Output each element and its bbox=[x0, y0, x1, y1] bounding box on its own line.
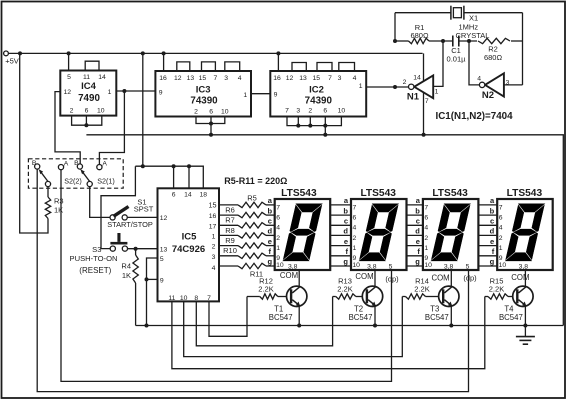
svg-text:7: 7 bbox=[285, 108, 289, 115]
svg-text:3: 3 bbox=[506, 80, 510, 87]
wire S2(2) A to DIS2 dp bbox=[61, 170, 392, 382]
svg-text:15: 15 bbox=[209, 201, 217, 210]
wire R2 right bbox=[511, 40, 523, 42]
svg-text:COM: COM bbox=[355, 272, 373, 281]
svg-text:14: 14 bbox=[98, 74, 106, 81]
svg-text:10: 10 bbox=[180, 295, 188, 302]
svg-text:d: d bbox=[490, 227, 495, 236]
svg-text:7490: 7490 bbox=[78, 93, 100, 104]
wire IC5 pin10 to R14 bbox=[184, 297, 403, 357]
resistor R9 220 bbox=[219, 236, 275, 248]
wire T3 emitter to rail bbox=[450, 306, 452, 325]
svg-text:1K: 1K bbox=[54, 206, 63, 215]
svg-text:(RESET): (RESET) bbox=[79, 266, 111, 275]
node R4 top junction bbox=[134, 247, 138, 251]
svg-text:b: b bbox=[343, 206, 348, 215]
node T1 emitter bbox=[297, 324, 301, 328]
svg-text:2: 2 bbox=[276, 235, 280, 242]
svg-text:14: 14 bbox=[413, 74, 421, 81]
resistor R7 220 bbox=[219, 216, 275, 228]
svg-text:7: 7 bbox=[214, 75, 218, 82]
op-amp N2 inverter bbox=[477, 73, 509, 101]
resistor R4 1K bbox=[121, 249, 138, 283]
node IC4 pin1 junction bbox=[122, 89, 126, 93]
svg-text:10: 10 bbox=[276, 262, 284, 269]
wire IC4 pins 11-14 bracket bbox=[85, 61, 99, 70]
wire S1 to IC5 pin12 bbox=[127, 216, 157, 218]
svg-text:COM: COM bbox=[431, 274, 449, 283]
node IC2 bracket pin2 bbox=[308, 124, 312, 128]
svg-text:4: 4 bbox=[424, 225, 428, 232]
wire IC2 pin1 to N1 output bbox=[366, 86, 408, 88]
svg-text:15: 15 bbox=[313, 75, 321, 82]
svg-text:1: 1 bbox=[276, 245, 280, 252]
+5V supply terminal bbox=[4, 51, 19, 66]
svg-text:9: 9 bbox=[160, 277, 164, 284]
node IC3 reset junction bbox=[209, 122, 213, 126]
transistor T4 BC547 bbox=[499, 286, 533, 322]
node T3 emitter bbox=[449, 324, 453, 328]
switch S2(1) contact B bbox=[74, 160, 82, 169]
wire T2 emitter to rail bbox=[374, 306, 376, 325]
wire IC5 supply bus bbox=[135, 166, 203, 188]
wire T1 emitter to rail bbox=[298, 306, 300, 325]
svg-text:CRYSTAL: CRYSTAL bbox=[456, 31, 490, 40]
svg-text:(dp): (dp) bbox=[385, 274, 399, 283]
wire IC3 pin1 to IC2 pin9 bbox=[251, 93, 270, 95]
svg-text:5: 5 bbox=[160, 256, 164, 263]
wire IC2 reset to ground rail bbox=[324, 126, 326, 135]
svg-text:5: 5 bbox=[466, 264, 470, 271]
wire IC5 pin6 bbox=[173, 166, 175, 188]
switch S1 SPST bbox=[107, 198, 154, 230]
svg-text:2.2K: 2.2K bbox=[414, 285, 429, 294]
svg-text:BC547: BC547 bbox=[425, 313, 449, 322]
svg-text:R7: R7 bbox=[225, 216, 235, 225]
svg-text:PUSH-TO-ON: PUSH-TO-ON bbox=[70, 254, 118, 263]
svg-text:680Ω: 680Ω bbox=[410, 31, 429, 40]
wire T4 emitter to rail bbox=[524, 306, 526, 325]
svg-text:e: e bbox=[416, 237, 420, 246]
svg-text:4: 4 bbox=[238, 75, 242, 82]
svg-text:1MHz: 1MHz bbox=[459, 22, 479, 31]
svg-text:A: A bbox=[64, 161, 69, 168]
svg-text:10: 10 bbox=[499, 262, 507, 269]
svg-text:2: 2 bbox=[70, 108, 74, 115]
wire R12 feed bbox=[247, 296, 260, 298]
node segment c label D1 bbox=[268, 217, 272, 226]
svg-text:2: 2 bbox=[403, 79, 407, 86]
display DIS2 digit bbox=[359, 204, 398, 261]
svg-text:START/STOP: START/STOP bbox=[107, 220, 153, 229]
node bus +5V feed bbox=[141, 164, 145, 168]
resistor R11 220 bbox=[219, 263, 275, 278]
label COM DIS2 bbox=[355, 272, 373, 281]
node +5V/IC5 supply bbox=[141, 51, 145, 55]
node pin5-9 junction bbox=[145, 277, 149, 281]
resistor R3 1K bbox=[45, 187, 63, 219]
node R1 left bbox=[393, 39, 397, 43]
node IC2 bracket pin6 bbox=[323, 124, 327, 128]
wire IC2 bottom bracket bbox=[287, 117, 341, 126]
svg-text:1K: 1K bbox=[122, 271, 131, 280]
op-amp N1 inverter bbox=[403, 74, 439, 105]
svg-text:S2(1): S2(1) bbox=[97, 177, 115, 186]
display DIS3 LTS543 bbox=[423, 188, 479, 271]
svg-text:LTS543: LTS543 bbox=[507, 188, 543, 199]
wire IC3 pin16 to +5V bbox=[163, 53, 165, 71]
wire S2(1) pole to S1 bbox=[90, 187, 110, 218]
svg-text:10: 10 bbox=[221, 108, 229, 115]
svg-text:1: 1 bbox=[424, 245, 428, 252]
svg-text:e: e bbox=[344, 237, 348, 246]
node segment f label D1 bbox=[269, 247, 272, 256]
svg-text:2: 2 bbox=[308, 108, 312, 115]
svg-text:4: 4 bbox=[276, 225, 280, 232]
label IC1 note bbox=[436, 111, 514, 122]
svg-text:2: 2 bbox=[212, 244, 216, 251]
wire N2 output to C1/R2 bbox=[469, 41, 479, 85]
svg-text:6: 6 bbox=[209, 108, 213, 115]
svg-text:74390: 74390 bbox=[190, 95, 218, 106]
svg-text:g: g bbox=[343, 257, 348, 266]
resistor R13 2.2K bbox=[333, 277, 363, 300]
svg-text:13: 13 bbox=[187, 75, 195, 82]
svg-text:S2(2): S2(2) bbox=[64, 177, 82, 186]
svg-text:R10: R10 bbox=[223, 246, 237, 255]
node T4 emitter bbox=[523, 324, 527, 328]
IC IC5 74C926 bbox=[158, 188, 220, 302]
svg-text:680Ω: 680Ω bbox=[484, 53, 503, 62]
svg-text:g: g bbox=[268, 257, 273, 266]
wire R3 to +5V bbox=[20, 53, 48, 233]
svg-text:6: 6 bbox=[85, 108, 89, 115]
svg-text:12: 12 bbox=[174, 75, 182, 82]
wire IC4 pins 2-6-10 bracket bbox=[72, 116, 102, 126]
node R1-C1 junction bbox=[441, 39, 445, 43]
svg-text:2: 2 bbox=[194, 108, 198, 115]
node segment g label D1 bbox=[268, 257, 273, 266]
IC IC3 74390 bbox=[155, 71, 251, 117]
svg-text:X1: X1 bbox=[469, 13, 478, 22]
wire IC2 pins 12-13 bracket bbox=[292, 63, 306, 72]
svg-text:11: 11 bbox=[83, 74, 90, 81]
svg-text:2: 2 bbox=[499, 235, 503, 242]
label COM DIS1 bbox=[280, 271, 298, 280]
IC IC2 74390 bbox=[270, 71, 366, 117]
svg-text:BC547: BC547 bbox=[349, 313, 373, 322]
wire IC4 pin5 to +5V bbox=[68, 53, 70, 70]
svg-text:1: 1 bbox=[243, 92, 247, 99]
svg-text:e: e bbox=[490, 237, 494, 246]
wire IC4 pin12 to S2(1) B bbox=[55, 92, 80, 164]
svg-text:2.2K: 2.2K bbox=[489, 285, 504, 294]
wire IC5 pin14 bbox=[188, 166, 190, 188]
wire IC5 pin11 to R15 bbox=[172, 297, 485, 369]
svg-text:e: e bbox=[268, 237, 272, 246]
svg-text:6: 6 bbox=[424, 215, 428, 222]
wire IC3 pins 15-7 bracket bbox=[202, 62, 216, 71]
svg-text:COM: COM bbox=[511, 273, 529, 282]
wire S3 to +5V bus bbox=[101, 166, 135, 248]
svg-text:6: 6 bbox=[276, 215, 280, 222]
svg-text:1: 1 bbox=[108, 89, 112, 96]
svg-text:1: 1 bbox=[212, 233, 216, 240]
svg-text:12: 12 bbox=[286, 75, 294, 82]
svg-text:12: 12 bbox=[160, 215, 168, 222]
label R5-R11 value bbox=[224, 176, 287, 186]
svg-text:6: 6 bbox=[353, 215, 357, 222]
wire IC5 pin5-9 bbox=[147, 258, 158, 326]
transistor T3 BC547 bbox=[425, 286, 459, 322]
wire IC2 pins 15-7 bracket bbox=[317, 63, 332, 72]
wire IC5 pin7 to R12 bbox=[209, 297, 247, 337]
svg-text:12: 12 bbox=[64, 89, 72, 96]
wire IC3 pins 2-6-10 bracket bbox=[196, 117, 225, 124]
label dp DIS2 bbox=[385, 274, 399, 283]
svg-text:6: 6 bbox=[172, 192, 176, 199]
wire IC4 pin1 to S2(1) A bbox=[99, 91, 124, 164]
svg-text:LTS543: LTS543 bbox=[432, 188, 468, 199]
node segment d label D1 bbox=[268, 227, 273, 236]
node pin5-9 ground bbox=[145, 324, 149, 328]
svg-text:d: d bbox=[415, 227, 420, 236]
wire R4 to emitter rail bbox=[135, 283, 137, 326]
wire crystal left leg bbox=[394, 13, 396, 41]
svg-text:8: 8 bbox=[194, 295, 198, 302]
svg-text:6: 6 bbox=[499, 215, 503, 222]
switch S3 push-to-on bbox=[70, 233, 128, 275]
wire IC5 pin8 to R13 bbox=[196, 297, 332, 346]
svg-text:d: d bbox=[268, 227, 273, 236]
node segment letters DIS2 bbox=[343, 196, 348, 266]
wire IC2 pin16 to +5V bbox=[277, 53, 279, 71]
svg-text:2.2K: 2.2K bbox=[258, 285, 273, 294]
svg-text:R6: R6 bbox=[225, 206, 235, 215]
svg-text:2: 2 bbox=[424, 235, 428, 242]
display DIS1 LTS543 bbox=[275, 188, 331, 271]
resistor R6 220 bbox=[219, 206, 275, 218]
svg-text:17: 17 bbox=[209, 223, 217, 230]
wire emitter rail bbox=[136, 325, 564, 327]
svg-text:74C926: 74C926 bbox=[172, 244, 205, 255]
svg-text:c: c bbox=[344, 217, 348, 226]
wire T1 collector to display bbox=[298, 270, 300, 286]
svg-text:3: 3 bbox=[212, 254, 216, 261]
svg-text:16: 16 bbox=[159, 75, 167, 82]
label COM DIS4 bbox=[511, 273, 529, 282]
node segment letters DIS3 bbox=[415, 196, 420, 266]
svg-text:b: b bbox=[490, 206, 495, 215]
resistor R1 680 bbox=[409, 23, 430, 44]
svg-text:7: 7 bbox=[328, 75, 332, 82]
wire IC2 pins 3-4 bracket bbox=[339, 63, 355, 72]
node bus pin14 bbox=[187, 164, 191, 168]
svg-text:16: 16 bbox=[273, 75, 281, 82]
svg-text:13: 13 bbox=[160, 247, 168, 254]
wire ground rail bbox=[86, 135, 563, 326]
svg-text:c: c bbox=[416, 217, 420, 226]
svg-text:BC547: BC547 bbox=[499, 313, 523, 322]
node IC2 bracket pin3 bbox=[296, 124, 300, 128]
svg-text:13: 13 bbox=[299, 75, 307, 82]
svg-text:3,8: 3,8 bbox=[444, 264, 454, 271]
resistor R15 2.2K bbox=[485, 277, 513, 300]
IC IC4 7490 bbox=[60, 71, 116, 116]
node ground rail N1 pin7 bbox=[422, 133, 426, 137]
svg-text:9: 9 bbox=[274, 91, 278, 98]
svg-text:d: d bbox=[343, 227, 348, 236]
wire R1 left bbox=[395, 40, 409, 42]
svg-text:B: B bbox=[32, 160, 37, 167]
svg-text:14: 14 bbox=[184, 192, 192, 199]
ground bbox=[516, 326, 535, 345]
svg-text:3,8: 3,8 bbox=[367, 264, 377, 271]
svg-text:+5V: +5V bbox=[5, 57, 19, 66]
node +5V/R3 branch bbox=[18, 51, 22, 55]
svg-text:0.01µ: 0.01µ bbox=[447, 54, 467, 63]
svg-text:16: 16 bbox=[209, 213, 217, 220]
node segment a label D1 bbox=[268, 196, 273, 205]
svg-text:IC2: IC2 bbox=[309, 84, 324, 95]
switch S2(2) contact A bbox=[58, 161, 68, 170]
svg-text:c: c bbox=[490, 217, 494, 226]
svg-text:R4: R4 bbox=[121, 261, 131, 270]
wire T4 collector to display bbox=[524, 270, 526, 286]
svg-text:COM: COM bbox=[280, 271, 298, 280]
wire crystal right leg bbox=[522, 13, 524, 85]
svg-text:2: 2 bbox=[353, 235, 357, 242]
svg-text:R5: R5 bbox=[247, 194, 257, 203]
svg-text:18: 18 bbox=[200, 192, 208, 199]
wire segment bus DIS2 to DIS3 bbox=[407, 205, 423, 266]
svg-text:(dp): (dp) bbox=[463, 274, 477, 283]
svg-text:7: 7 bbox=[425, 98, 429, 105]
svg-text:IC4: IC4 bbox=[81, 81, 97, 92]
svg-text:10: 10 bbox=[424, 262, 432, 269]
resistor R14 2.2K bbox=[402, 277, 438, 300]
svg-text:1: 1 bbox=[499, 245, 503, 252]
wire IC3 pins 3-4 bracket bbox=[225, 62, 240, 71]
svg-text:N1: N1 bbox=[407, 91, 420, 102]
svg-text:g: g bbox=[490, 257, 495, 266]
switch S2(2) pole bbox=[39, 169, 82, 186]
svg-text:1: 1 bbox=[353, 245, 357, 252]
svg-text:3: 3 bbox=[296, 108, 300, 115]
svg-text:6: 6 bbox=[323, 108, 327, 115]
switch S2(2) contact B bbox=[32, 160, 40, 169]
node N1 output junction bbox=[393, 85, 397, 89]
svg-text:11: 11 bbox=[168, 295, 175, 302]
svg-text:74390: 74390 bbox=[305, 95, 333, 106]
switch S2 dashed box bbox=[28, 159, 123, 188]
switch S2(1) pole bbox=[80, 169, 114, 186]
svg-text:b: b bbox=[268, 206, 273, 215]
node C1-R2 junction bbox=[467, 39, 471, 43]
svg-text:b: b bbox=[415, 206, 420, 215]
svg-text:R9: R9 bbox=[225, 236, 235, 245]
wire segment bus DIS1 to DIS2 bbox=[330, 205, 351, 266]
node ground rail IC3 bbox=[209, 133, 213, 137]
svg-text:R8: R8 bbox=[225, 226, 235, 235]
svg-text:4: 4 bbox=[353, 225, 357, 232]
svg-text:N2: N2 bbox=[482, 90, 494, 101]
svg-text:c: c bbox=[268, 217, 272, 226]
wire N2 input from crystal bbox=[504, 84, 523, 86]
wire IC5 pin9 stub bbox=[147, 278, 158, 280]
svg-text:3: 3 bbox=[338, 75, 342, 82]
svg-text:4: 4 bbox=[477, 75, 481, 82]
wire S2(2) B to DIS3 dp bbox=[37, 169, 468, 392]
wire C1 right to R2 bbox=[459, 40, 477, 42]
svg-text:B: B bbox=[74, 160, 79, 167]
node bus pin6 bbox=[172, 164, 176, 168]
node segment e label D1 bbox=[268, 237, 272, 246]
wire N1 pin14 to +5V bbox=[423, 53, 425, 80]
svg-text:IC3: IC3 bbox=[196, 84, 211, 95]
svg-text:S3: S3 bbox=[92, 245, 101, 254]
svg-text:5: 5 bbox=[67, 74, 71, 81]
node IC4 reset junction bbox=[84, 123, 88, 127]
capacitor C1 0.01u bbox=[447, 36, 467, 64]
svg-text:3,8: 3,8 bbox=[519, 264, 529, 271]
svg-text:IC1(N1,N2)=7404: IC1(N1,N2)=7404 bbox=[436, 111, 514, 122]
display DIS1 digit bbox=[283, 204, 322, 261]
wire S3 to IC5 pin13 bbox=[128, 248, 158, 250]
svg-text:LTS543: LTS543 bbox=[281, 188, 317, 199]
resistor R8 220 bbox=[219, 226, 275, 238]
svg-text:7: 7 bbox=[207, 295, 211, 302]
wire IC4 pin1 to IC3 pin9 bbox=[116, 90, 155, 92]
svg-text:BC547: BC547 bbox=[269, 313, 293, 322]
svg-text:10: 10 bbox=[352, 262, 360, 269]
display DIS4 digit bbox=[505, 204, 544, 261]
svg-text:7: 7 bbox=[499, 204, 503, 211]
wire IC5 +5V feed bbox=[142, 53, 144, 166]
svg-text:R5-R11 = 220Ω: R5-R11 = 220Ω bbox=[224, 176, 287, 186]
resistor R10 220 bbox=[219, 246, 275, 258]
resistor R5 220 bbox=[219, 194, 275, 208]
node ground rail IC2 bbox=[323, 133, 327, 137]
node segment letters DIS4 bbox=[490, 196, 495, 266]
node +5V/IC4 pin5 bbox=[67, 51, 71, 55]
switch S2(1) contact A bbox=[97, 161, 108, 170]
node segment b label D1 bbox=[268, 206, 273, 215]
svg-text:15: 15 bbox=[199, 75, 207, 82]
resistor R12 2.2K bbox=[258, 277, 286, 300]
svg-text:4: 4 bbox=[353, 75, 357, 82]
svg-text:A: A bbox=[102, 161, 107, 168]
svg-text:7: 7 bbox=[276, 204, 280, 211]
wire N1 pin7 to ground bbox=[423, 93, 425, 135]
node +5V/IC2 pin16 bbox=[276, 51, 280, 55]
wire T3 collector to display bbox=[450, 270, 452, 286]
transistor T1 BC547 bbox=[269, 286, 307, 322]
svg-text:g: g bbox=[415, 257, 420, 266]
svg-text:3: 3 bbox=[224, 75, 228, 82]
svg-text:7: 7 bbox=[424, 204, 428, 211]
svg-text:IC5: IC5 bbox=[182, 231, 198, 242]
svg-text:1: 1 bbox=[359, 83, 363, 90]
display DIS3 digit bbox=[431, 204, 470, 261]
crystal X1 bbox=[395, 6, 523, 41]
svg-text:2.2K: 2.2K bbox=[337, 285, 352, 294]
svg-text:7: 7 bbox=[353, 204, 357, 211]
node +5V/IC3 pin16 bbox=[162, 51, 166, 55]
svg-text:LTS543: LTS543 bbox=[360, 188, 396, 199]
svg-text:1: 1 bbox=[435, 89, 439, 96]
label dp DIS3 bbox=[463, 274, 477, 283]
